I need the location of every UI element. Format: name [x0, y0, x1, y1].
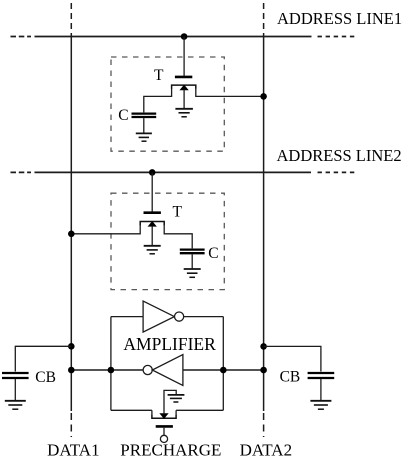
ground under transistor T1: [175, 109, 193, 117]
wire capacitor C1 to ground: [143, 118, 145, 133]
node: junction dot T1 drain on DATA2: [260, 93, 267, 100]
node: junction dot node line on DATA2: [260, 367, 267, 374]
transistor Q1 gate bar: [156, 425, 173, 428]
wire DATA2 to capacitor CB right: [264, 346, 321, 371]
node: junction dot node line left vertical: [108, 367, 115, 374]
transistor T1 substrate arrow: [180, 85, 188, 90]
svg-text:C: C: [208, 245, 218, 262]
svg-text:ADDRESS LINE2: ADDRESS LINE2: [277, 146, 402, 165]
precharge gate open terminal circle: [160, 435, 167, 442]
svg-text:CB: CB: [280, 369, 301, 386]
wire amplifier left vertical: [110, 317, 112, 411]
svg-text:DATA1: DATA1: [47, 441, 99, 460]
svg-text:CB: CB: [35, 369, 56, 386]
node: junction dot gate T2 on ADDRESS LINE2: [149, 169, 156, 176]
svg-text:DATA2: DATA2: [240, 441, 292, 460]
ground under capacitor C2: [184, 269, 201, 277]
wire capacitor C2 to ground: [191, 254, 193, 269]
transistor Q1 substrate arrow (down): [160, 414, 168, 419]
wire DATA1 vertical rail: [70, 3, 72, 437]
transistor T2 gate bar: [144, 211, 161, 214]
transistor T1 substrate wire: [183, 90, 185, 109]
wire capacitor CB left to ground: [14, 379, 16, 401]
wire precharge right horizontal: [176, 409, 223, 411]
node: junction dot node line right vertical: [220, 367, 227, 374]
transistor Q1 substrate wire to ground: [164, 390, 176, 413]
svg-text:AMPLIFIER: AMPLIFIER: [123, 334, 216, 354]
wire DATA1 to capacitor CB left: [15, 346, 71, 371]
transistor T1 gate bar: [175, 76, 192, 79]
transistor T2 substrate arrow: [148, 222, 156, 227]
node: junction dot CB left wire on DATA1: [68, 343, 75, 350]
svg-text:PRECHARGE: PRECHARGE: [120, 441, 221, 460]
wire amplifier node line right segment: [183, 369, 264, 371]
memory cell 1 dashed boundary box: [111, 57, 224, 151]
node: junction dot node line on DATA1: [68, 367, 75, 374]
transistor T1 channel: [172, 85, 196, 89]
svg-text:T: T: [173, 204, 183, 221]
wire T1 source to capacitor C1: [144, 89, 172, 113]
wire ADDRESS LINE1 horizontal: [11, 36, 356, 38]
wire precharge left horizontal: [111, 409, 152, 411]
svg-text:ADDRESS LINE1: ADDRESS LINE1: [277, 9, 402, 28]
transistor T2 gate wire: [151, 172, 153, 211]
wire T2 source to DATA1: [71, 225, 140, 234]
transistor Q1 precharge channel: [152, 410, 176, 418]
node: junction dot T2 source on DATA1: [68, 231, 75, 238]
capacitor C2 plates: [180, 250, 205, 254]
ground under CB right: [310, 401, 331, 409]
wire amplifier node line left segment: [71, 369, 143, 371]
ground under transistor T2: [144, 246, 161, 254]
ground under CB left: [5, 401, 26, 409]
capacitor C1 plates: [132, 114, 157, 117]
svg-text:T: T: [154, 67, 164, 84]
wire T2 drain to capacitor C2: [164, 225, 192, 249]
inverter U2 output bubble (bottom): [143, 365, 152, 374]
transistor T1 gate wire: [183, 37, 185, 76]
capacitor CB left plates: [2, 373, 29, 378]
wire amplifier right vertical: [222, 317, 224, 411]
memory cell 2 dashed boundary box: [111, 193, 224, 289]
wire top inverter output: [184, 316, 224, 318]
wire top inverter input: [111, 316, 143, 318]
wire DATA2 vertical rail: [263, 3, 265, 437]
capacitor CB right plates: [308, 373, 335, 378]
wire T1 drain to DATA2: [196, 89, 264, 97]
wire ADDRESS LINE2 horizontal: [11, 171, 356, 173]
ground above precharge transistor: [168, 395, 185, 402]
node: junction dot gate T1 on ADDRESS LINE1: [181, 33, 188, 40]
svg-text:C: C: [118, 107, 128, 124]
transistor T2 channel: [140, 222, 164, 226]
transistor T2 substrate wire: [151, 226, 153, 246]
node: junction dot CB right wire on DATA2: [260, 343, 267, 350]
inverter U1 output bubble: [175, 312, 184, 321]
inverter U1 triangle (top): [143, 301, 174, 332]
inverter U2 triangle (bottom): [152, 355, 183, 386]
transistor Q1 gate wire: [163, 428, 165, 436]
wire capacitor CB right to ground: [320, 379, 322, 401]
ground under capacitor C1: [136, 133, 152, 141]
